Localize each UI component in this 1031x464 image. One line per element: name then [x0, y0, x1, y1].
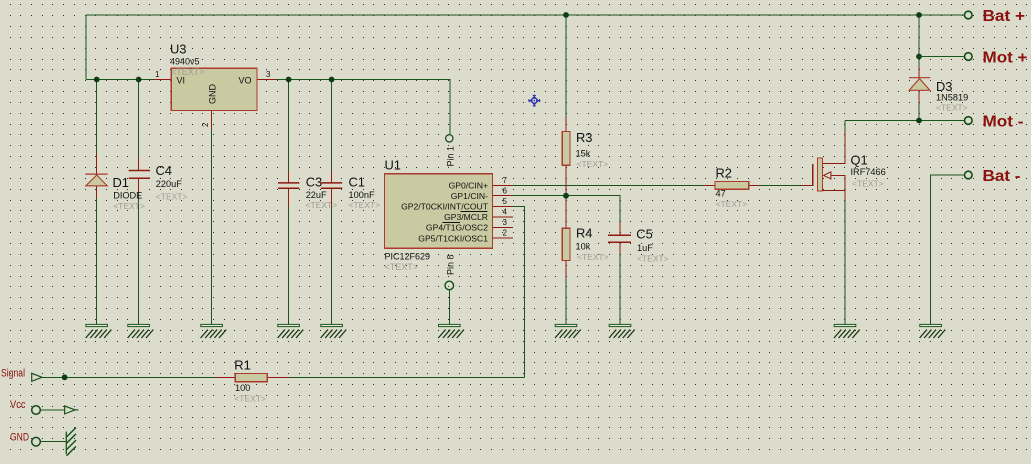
svg-text:15k: 15k [576, 149, 591, 159]
wire R4 bottom to ground [565, 279, 567, 324]
wire C5 bottom to ground [619, 254, 621, 324]
svg-text:2: 2 [201, 122, 210, 127]
svg-text:C4: C4 [156, 163, 172, 178]
svg-text:Signal: Signal [1, 367, 25, 379]
svg-text:<TEXT>: <TEXT> [156, 192, 188, 202]
wire GP2 pin5 down to R1 net [512, 206, 525, 377]
terminal Pin-1 [446, 135, 453, 142]
wire R3 top to rail [565, 15, 567, 117]
svg-text:<TEXT>: <TEXT> [385, 262, 419, 272]
svg-text:<TEXT>: <TEXT> [349, 200, 381, 210]
resistor R4 [565, 261, 567, 280]
wire R1 to pin5 riser [289, 376, 525, 378]
capacitor C1 [331, 171, 333, 207]
svg-text:4940v5: 4940v5 [170, 57, 200, 67]
svg-text:47: 47 [716, 189, 726, 199]
wire C1 branch [331, 80, 333, 325]
wire U3 GND pin to ground [211, 129, 213, 324]
svg-text:<TEXT>: <TEXT> [577, 159, 609, 169]
svg-text:Pin 1: Pin 1 [446, 146, 456, 167]
wire GP0 pin7 to R2 and Q1 gate [512, 184, 801, 186]
node rail-C1 [329, 77, 335, 83]
node rail-D1 [94, 77, 100, 83]
terminal Bat - [965, 171, 973, 179]
diode D3 [918, 66, 920, 103]
svg-text:VI: VI [177, 76, 186, 86]
U1 pin 3 stub [493, 227, 514, 229]
wire Pin-8 to ground [448, 290, 450, 324]
svg-text:GP5/T1CKI/OSC1: GP5/T1CKI/OSC1 [418, 233, 488, 243]
MOSFET Q1 [801, 131, 845, 200]
capacitor C3 [288, 171, 290, 207]
wire Q1 source to ground [844, 200, 846, 324]
svg-text:R2: R2 [716, 166, 732, 181]
ground [278, 324, 304, 338]
svg-text:U1: U1 [385, 158, 401, 173]
svg-text:IRF7466: IRF7466 [851, 167, 886, 177]
U1 pin 7 stub [493, 184, 513, 186]
ground [438, 324, 464, 338]
wire Mot- horizontal [845, 120, 965, 122]
svg-text:3: 3 [503, 218, 508, 227]
origin marker [528, 95, 540, 107]
wire rail right of U3 to Pin-1 [275, 80, 450, 135]
svg-text:Vcc: Vcc [10, 399, 26, 411]
wire left riser [85, 15, 87, 80]
svg-text:10k: 10k [576, 242, 591, 252]
ground [609, 324, 635, 338]
wire Signal to R1 [42, 376, 216, 378]
capacitor C5 [619, 222, 621, 254]
svg-text:C1: C1 [349, 175, 365, 190]
svg-text:Pin 8: Pin 8 [446, 254, 456, 275]
svg-text:R4: R4 [576, 226, 592, 241]
wire D3 top/bottom greens [918, 15, 920, 121]
svg-text:4: 4 [503, 208, 508, 217]
ground [920, 324, 946, 338]
svg-text:1: 1 [155, 70, 160, 79]
wire C3 branch [288, 80, 290, 325]
svg-text:Mot -: Mot - [983, 113, 1024, 130]
svg-text:3: 3 [266, 70, 271, 79]
wire Vcc terminal stub [40, 409, 64, 411]
svg-text:5: 5 [503, 197, 508, 206]
regulator U3 [154, 80, 276, 130]
resistor R2 [704, 184, 760, 186]
terminal Mot + [965, 53, 973, 61]
wire GP1 pin6 node to C5 [512, 196, 620, 222]
node Mot+ [916, 54, 922, 60]
wire D1 branch [96, 80, 98, 325]
ground [321, 324, 347, 338]
svg-text:100nF: 100nF [349, 190, 375, 200]
ground [201, 324, 227, 338]
svg-text:GND: GND [10, 431, 29, 443]
wire Bat- to ground [931, 175, 965, 324]
terminal Mot - [965, 117, 973, 125]
svg-text:R1: R1 [234, 358, 250, 373]
terminal Bat + [965, 11, 973, 19]
svg-text:<TEXT>: <TEXT> [637, 254, 669, 264]
U1 pin 6 stub [493, 195, 513, 197]
svg-text:GP1/CIN-: GP1/CIN- [451, 191, 488, 201]
svg-text:1uF: 1uF [637, 243, 653, 253]
svg-text:<TEXT>: <TEXT> [852, 179, 884, 189]
svg-text:2: 2 [503, 229, 508, 238]
node rail-C3 [286, 77, 292, 83]
wire Mot+ stub [919, 56, 965, 58]
svg-text:D1: D1 [113, 175, 129, 190]
svg-text:Mot +: Mot + [983, 49, 1028, 66]
svg-text:Bat -: Bat - [983, 168, 1021, 185]
node rail-C4 [136, 77, 142, 83]
svg-text:1N5819: 1N5819 [936, 93, 968, 103]
U1 pin 4 stub [493, 216, 514, 218]
svg-text:<TEXT>: <TEXT> [716, 199, 748, 209]
ground [128, 324, 154, 338]
svg-text:7: 7 [503, 176, 508, 185]
wire C4 branch [138, 80, 140, 325]
svg-text:Q1: Q1 [851, 153, 868, 168]
svg-text:<TEXT>: <TEXT> [306, 200, 338, 210]
svg-text:220uF: 220uF [156, 179, 182, 189]
svg-text:VO: VO [239, 76, 252, 86]
diode D1 [96, 153, 98, 198]
resistor R3 [565, 117, 567, 228]
svg-text:<TEXT>: <TEXT> [113, 201, 145, 211]
U1 pin labels [401, 181, 489, 244]
svg-text:GP4/T1G/OSC2: GP4/T1G/OSC2 [426, 223, 488, 233]
wire Q1 drain to Mot- rail [844, 121, 846, 132]
IC U1 PIC12F629 [385, 174, 493, 248]
node Mot- [916, 118, 922, 124]
svg-text:U3: U3 [170, 42, 186, 57]
wire top rail to Bat+ [86, 14, 965, 16]
svg-text:GP2/T0CKI/INT/COUT: GP2/T0CKI/INT/COUT [401, 202, 489, 212]
svg-text:PIC12F629: PIC12F629 [385, 252, 431, 262]
svg-text:<TEXT>: <TEXT> [936, 103, 968, 113]
resistor R1 [216, 376, 289, 378]
svg-text:100: 100 [235, 383, 250, 393]
svg-text:R3: R3 [576, 130, 592, 145]
svg-text:C3: C3 [306, 175, 322, 190]
svg-text:<TEXT>: <TEXT> [577, 252, 609, 262]
svg-text:22uF: 22uF [306, 190, 327, 200]
wire GND terminal stub [40, 441, 66, 443]
ground [555, 324, 581, 338]
node top-R3 [563, 12, 569, 18]
ground [834, 324, 860, 338]
svg-text:Bat +: Bat + [983, 8, 1026, 25]
svg-text:6: 6 [503, 186, 508, 195]
node divider pin6 [563, 193, 569, 199]
U1 pin 5 stub [493, 205, 513, 207]
svg-text:<TEXT>: <TEXT> [234, 394, 266, 404]
U1 pin 2 stub [493, 237, 514, 239]
svg-text:GP0/CIN+: GP0/CIN+ [449, 181, 488, 191]
svg-text:DIODE: DIODE [113, 191, 142, 201]
node top-D3 Bat+ [916, 12, 922, 18]
svg-text:GND: GND [208, 84, 218, 105]
node signal wire [62, 374, 68, 380]
terminal Pin-8 [445, 281, 454, 290]
svg-text:GP3/MCLR: GP3/MCLR [444, 212, 488, 222]
ground [86, 324, 112, 338]
capacitor C4 [138, 157, 140, 192]
svg-text:C5: C5 [636, 227, 652, 242]
wire main rail left of U3 [86, 79, 154, 81]
